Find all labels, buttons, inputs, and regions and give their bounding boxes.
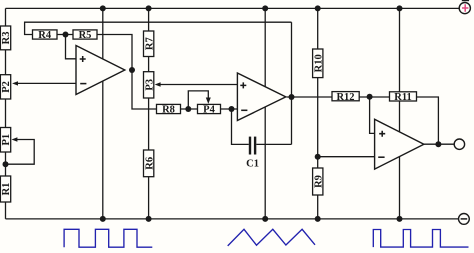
svg-text:C1: C1 [246, 158, 259, 169]
svg-text:R7: R7 [144, 37, 155, 50]
svg-text:R6: R6 [144, 157, 155, 170]
svg-text:R8: R8 [162, 105, 175, 116]
svg-text:R5: R5 [79, 30, 92, 41]
svg-text:P3: P3 [144, 79, 155, 91]
svg-text:R9: R9 [313, 175, 324, 188]
svg-text:R1: R1 [1, 183, 12, 196]
svg-text:R4: R4 [38, 30, 52, 41]
svg-text:R11: R11 [394, 92, 412, 103]
svg-text:P1: P1 [1, 134, 12, 146]
svg-text:P4: P4 [203, 105, 215, 116]
svg-text:R3: R3 [1, 31, 12, 44]
svg-text:R12: R12 [336, 92, 354, 103]
svg-text:P2: P2 [1, 81, 12, 93]
svg-text:R10: R10 [313, 54, 324, 72]
